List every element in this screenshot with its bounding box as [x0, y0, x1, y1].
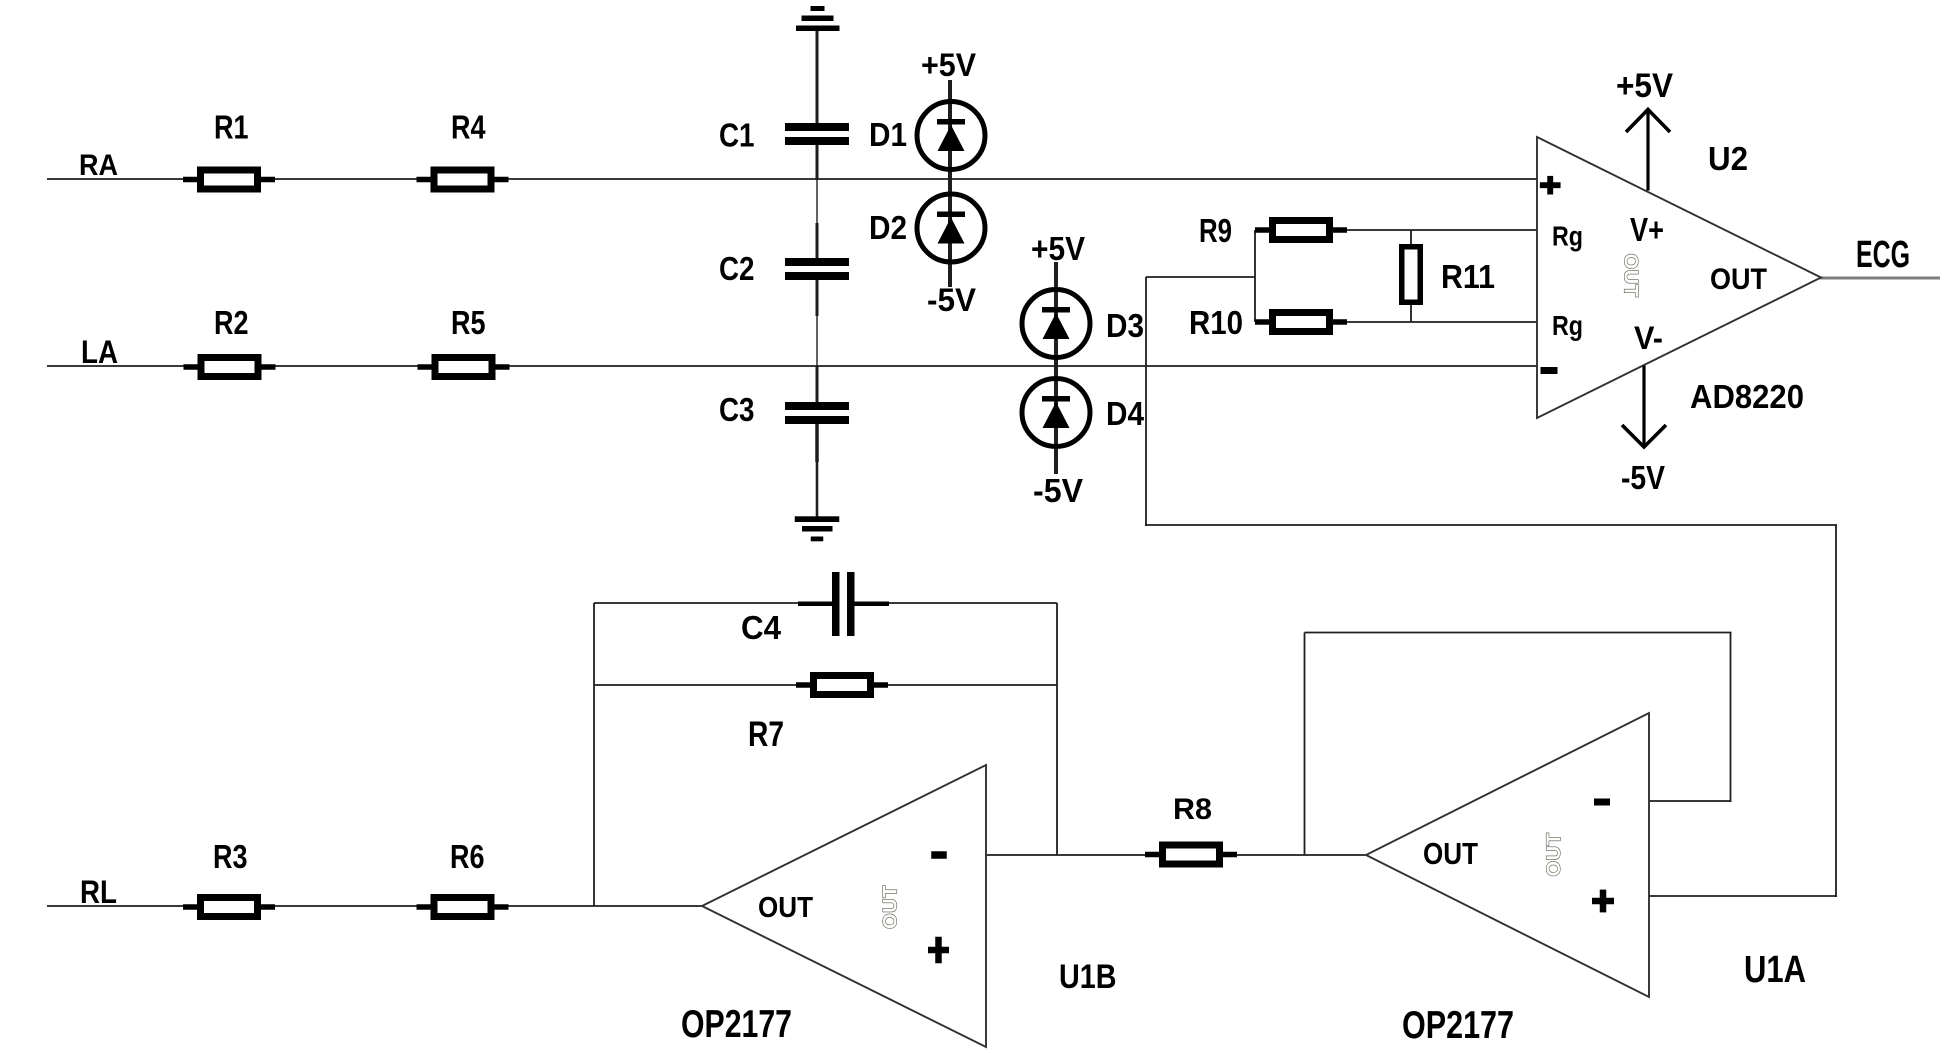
svg-text:D3: D3 — [1106, 307, 1144, 344]
svg-text:R10: R10 — [1189, 304, 1243, 341]
svg-text:OUT: OUT — [1423, 836, 1478, 871]
svg-text:R4: R4 — [451, 109, 486, 146]
svg-text:R3: R3 — [213, 838, 248, 875]
svg-text:D2: D2 — [869, 209, 907, 246]
svg-text:RA: RA — [79, 149, 118, 182]
svg-text:R11: R11 — [1441, 258, 1495, 295]
svg-text:V+: V+ — [1630, 211, 1664, 248]
svg-text:D4: D4 — [1106, 395, 1145, 432]
svg-text:U1A: U1A — [1744, 949, 1806, 991]
svg-text:OP2177: OP2177 — [681, 1003, 792, 1046]
svg-text:+5V: +5V — [921, 47, 977, 83]
svg-text:Rg: Rg — [1552, 221, 1583, 252]
svg-text:OP2177: OP2177 — [1402, 1004, 1514, 1047]
svg-text:R7: R7 — [748, 715, 784, 754]
svg-text:OUT: OUT — [1620, 254, 1641, 298]
svg-text:OUT: OUT — [1544, 833, 1565, 877]
svg-text:R2: R2 — [214, 304, 249, 341]
svg-text:R1: R1 — [214, 109, 249, 146]
svg-text:LA: LA — [81, 334, 118, 370]
svg-text:RL: RL — [80, 874, 117, 910]
svg-text:+5V: +5V — [1616, 67, 1673, 105]
svg-text:+5V: +5V — [1031, 230, 1085, 267]
svg-text:OUT: OUT — [881, 885, 902, 929]
svg-text:-5V: -5V — [1621, 459, 1665, 496]
svg-text:OUT: OUT — [758, 892, 813, 924]
svg-text:C4: C4 — [741, 609, 782, 646]
svg-text:-5V: -5V — [927, 282, 977, 318]
svg-text:R8: R8 — [1173, 793, 1212, 826]
svg-text:D1: D1 — [869, 116, 907, 153]
svg-text:C3: C3 — [719, 391, 755, 428]
svg-text:R6: R6 — [450, 838, 485, 875]
svg-text:U2: U2 — [1708, 140, 1748, 177]
svg-text:U1B: U1B — [1059, 958, 1117, 996]
svg-text:-5V: -5V — [1033, 472, 1083, 509]
svg-text:AD8220: AD8220 — [1690, 378, 1804, 415]
svg-text:Rg: Rg — [1552, 310, 1583, 341]
svg-text:ECG: ECG — [1856, 234, 1910, 276]
svg-text:V-: V- — [1634, 320, 1663, 356]
svg-text:C1: C1 — [719, 117, 755, 154]
svg-text:R9: R9 — [1199, 212, 1232, 249]
svg-text:C2: C2 — [719, 250, 755, 287]
svg-text:OUT: OUT — [1710, 263, 1767, 296]
svg-text:R5: R5 — [451, 304, 486, 341]
